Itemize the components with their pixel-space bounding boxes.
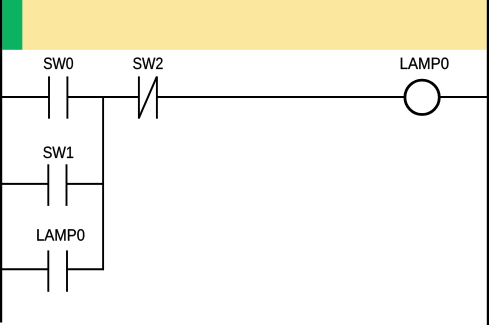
label LAMP0 (contact) xyxy=(37,229,84,241)
wire: coil LAMP0 to right rail xyxy=(441,96,488,98)
rung header yellow bar xyxy=(22,0,486,50)
right power rail xyxy=(487,0,489,325)
contact SW2 (normally closed) xyxy=(139,76,157,118)
contact SW1 xyxy=(48,164,66,206)
left power rail xyxy=(0,0,2,323)
label LAMP0 (coil) xyxy=(401,58,449,70)
wire: SW1 to branch vertical xyxy=(67,183,105,185)
contact LAMP0 xyxy=(48,250,67,291)
wire: SW0 to SW2 xyxy=(67,96,138,98)
label SW0 xyxy=(44,58,73,70)
wire: left rail to SW0 xyxy=(2,96,49,98)
rung header green tab xyxy=(2,0,22,50)
wire: left rail to contact LAMP0 xyxy=(2,268,48,270)
wire: SW2 to coil LAMP0 xyxy=(157,96,404,98)
coil LAMP0 xyxy=(405,80,439,114)
wire: left rail to SW1 xyxy=(2,183,48,185)
contact SW0 xyxy=(49,76,67,118)
label SW1 xyxy=(43,147,73,159)
wire: contact LAMP0 to branch vertical xyxy=(67,268,104,270)
label SW2 xyxy=(133,58,162,70)
branch junction vertical wire xyxy=(102,96,104,270)
